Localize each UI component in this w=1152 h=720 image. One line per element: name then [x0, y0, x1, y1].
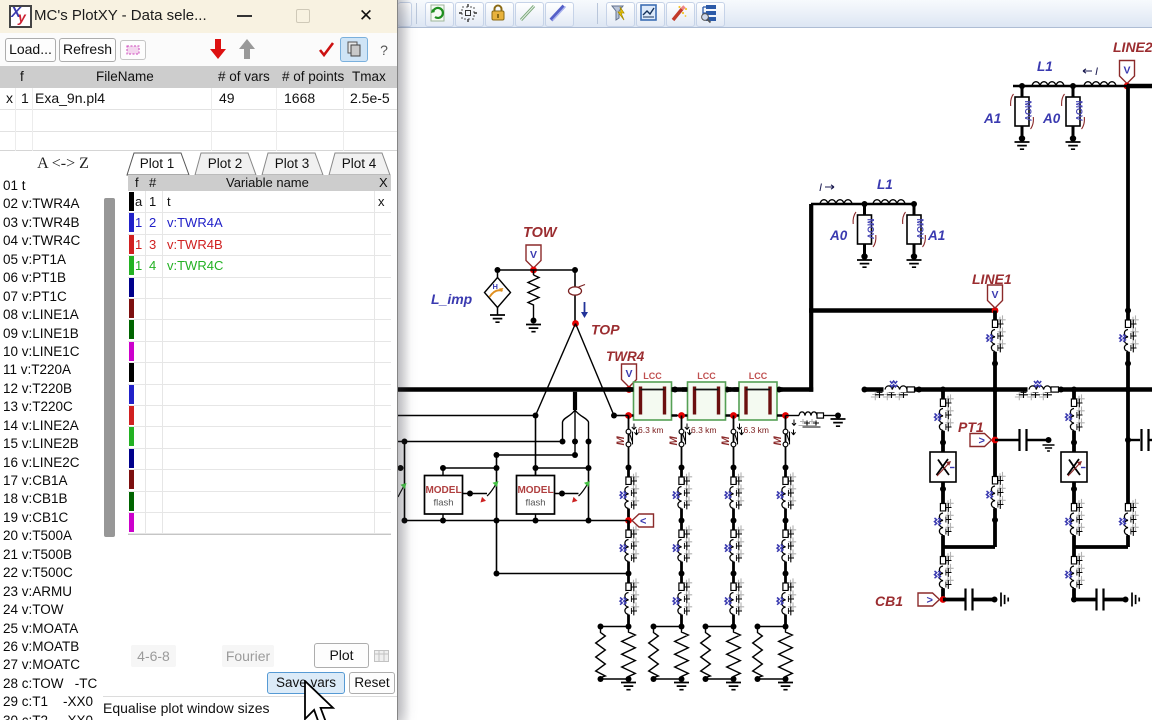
junction station bus left: [862, 387, 868, 393]
junction model1 top: [440, 465, 446, 471]
node TOP: [572, 320, 579, 327]
junction lower d: [533, 518, 539, 524]
resistor chain3 footing right: [727, 629, 741, 679]
svg-text:L_imp: L_imp: [431, 291, 473, 307]
label LCC2: [697, 371, 716, 381]
line block LCC3: [734, 382, 783, 420]
ground chain4: [778, 683, 793, 690]
icon: line blue: [551, 6, 566, 21]
capacitor coupling edge: [1142, 429, 1149, 451]
wire feeder right: [1126, 86, 1130, 547]
junction bay1 b: [940, 486, 946, 492]
junction right column: [586, 465, 592, 471]
model box flash2: [517, 476, 555, 515]
capacitor CB1: [966, 589, 973, 611]
wire line entry thick: [1127, 84, 1152, 88]
resistor tower footing: [528, 270, 539, 318]
series reactor bus left: [866, 381, 919, 400]
wire model2 bottom pin: [535, 514, 537, 521]
wire chain2 footing: [654, 627, 682, 680]
svg-text:LCC: LCC: [697, 371, 716, 381]
label A0 top: [1042, 111, 1061, 126]
wire stub left edge: [398, 467, 401, 469]
wire tower right leg to chain1: [614, 415, 629, 417]
junction lower c: [494, 518, 500, 524]
svg-text:Plot 4: Plot 4: [342, 156, 377, 171]
svg-text:A0: A0: [1042, 111, 1061, 126]
wire phase C: [497, 454, 576, 456]
junction tower right leg: [611, 413, 617, 419]
junction LINE1 lower: [992, 517, 998, 523]
label A1 top: [983, 111, 1001, 126]
svg-text:CB1: CB1: [875, 593, 903, 609]
junction LCC1-LCC2: [724, 387, 730, 393]
svg-text:Plot 1: Plot 1: [140, 156, 175, 171]
node tower4: [782, 412, 789, 419]
tower segment chain4 mid: [777, 521, 796, 574]
wire bus seg3: [725, 387, 740, 392]
label I arrow mid: [819, 182, 834, 194]
branch probe chain1: [632, 514, 654, 528]
cable segment bay1 lower: [935, 547, 954, 600]
wire link model1: [443, 467, 497, 469]
svg-text:6.3 km: 6.3 km: [744, 425, 770, 435]
ground PT1: [1043, 445, 1055, 451]
cable segment bay2 lower: [1066, 547, 1085, 600]
wire column tower left: [535, 416, 537, 476]
junction chain4 c: [783, 624, 789, 630]
switch flash2: [572, 481, 590, 503]
junction chain4 footing left: [755, 624, 761, 630]
junction fan mid: [572, 439, 578, 445]
tower segment chain3 bottom: [725, 574, 744, 627]
wire link model2: [536, 467, 589, 469]
cable segment right lower: [1120, 494, 1139, 547]
junction chain2 c: [679, 624, 685, 630]
ground resistor: [526, 325, 541, 332]
junction bus n2: [940, 387, 946, 393]
svg-text:TOP: TOP: [591, 322, 620, 338]
capacitor PT1: [1020, 429, 1027, 451]
svg-text:A1: A1: [927, 228, 945, 243]
label TOW: [523, 225, 558, 241]
junction PT1 ground: [1046, 437, 1052, 443]
tower segment chain3 mid: [725, 521, 744, 574]
node TWR4 mid (probe): [625, 517, 632, 524]
wire model1 top pin: [442, 468, 444, 476]
label CB1: [875, 593, 903, 609]
svg-text:L1: L1: [877, 177, 893, 192]
node LINE1: [992, 307, 999, 314]
wire column right: [588, 442, 590, 521]
voltage probe TOW: [526, 245, 541, 268]
label A0 mid: [829, 228, 848, 243]
junction mid column: [494, 465, 500, 471]
wire coupling edge: [1150, 439, 1152, 441]
wire tower left leg: [536, 324, 576, 416]
tower segment chain2 mid: [673, 521, 692, 574]
wire model1 output: [463, 493, 488, 495]
ground L_imp: [490, 315, 505, 322]
wire station bus: [865, 387, 1152, 391]
svg-text:LCC: LCC: [643, 371, 662, 381]
wire LCC2-LCC3 bottom: [726, 415, 740, 417]
junction phase C right: [572, 452, 578, 458]
svg-text:A1: A1: [983, 111, 1001, 126]
junction chain2 bottom right: [679, 676, 685, 682]
junction chain2 a: [679, 465, 685, 471]
resistor chain2 footing left: [649, 629, 659, 679]
label A1 mid: [927, 228, 945, 243]
wire bay2 capacitor right: [1105, 598, 1126, 602]
junction model2 output: [559, 491, 565, 497]
value label 6.3 km LCC2: [685, 424, 717, 436]
wire branch column left: [404, 442, 406, 521]
switch M chain3: [720, 428, 744, 448]
wire model1 bottom pin: [442, 514, 444, 521]
source L_imp: [485, 270, 511, 315]
icon: lock: [492, 6, 504, 21]
icon: plot: [641, 5, 656, 20]
junction chain1 bottom left: [598, 676, 604, 682]
wire chain1 footing: [601, 627, 629, 680]
junction line termination: [835, 413, 841, 419]
resistor chain4 footing right: [779, 629, 793, 679]
junction chain1 c: [626, 624, 632, 630]
voltage probe LINE2: [1120, 61, 1135, 84]
transformer X bay1: [930, 452, 956, 482]
cable segment LINE1 lower: [987, 467, 1006, 520]
junction bus n4: [1071, 387, 1077, 393]
node LINE2: [1124, 83, 1131, 90]
switch M chain1: [615, 428, 639, 448]
junction chain4 a: [783, 465, 789, 471]
junction CB1 ground: [992, 597, 998, 603]
tower segment chain1 mid: [620, 521, 639, 574]
switch M chain4: [772, 428, 796, 448]
label LCC3: [749, 371, 768, 381]
background application toolbar: [0, 0, 1152, 28]
junction chain4 bottom right: [783, 676, 789, 682]
inductor L1 top: [1032, 82, 1064, 86]
junction feeder right mid: [1125, 361, 1131, 367]
resistor chain1 footing left: [596, 629, 606, 679]
wire model2 output: [555, 493, 579, 495]
cable segment right upper: [1120, 311, 1139, 364]
wire arrester bay top: [811, 203, 914, 205]
label L1 mid: [877, 177, 893, 192]
junction feeder right top: [1125, 308, 1131, 314]
junction LCC2-LCC3: [776, 387, 782, 393]
junction branch left top: [402, 439, 408, 445]
junction bay2 breaker: [1071, 597, 1077, 603]
ground bay2: [1132, 593, 1139, 607]
line termination after tower4: [786, 412, 839, 427]
resistor chain1 footing right: [622, 629, 636, 679]
junction stub coupling: [1125, 437, 1131, 443]
ground chain1: [621, 683, 636, 690]
junction chain3 b: [731, 571, 737, 577]
switch M chain2: [668, 428, 692, 448]
wire CB1 capacitor left: [943, 598, 965, 602]
branch probe CB1: [918, 593, 940, 607]
junction A0 top: [1070, 83, 1076, 89]
junction counterpoise: [494, 571, 500, 577]
node PT1: [992, 437, 999, 444]
capacitor bay2: [1097, 589, 1104, 611]
node tower2: [678, 412, 685, 419]
junction tower left leg: [533, 413, 539, 419]
icon: reload ATP file: [431, 5, 444, 21]
junction feeder right bus: [1125, 387, 1131, 393]
shadow to the right of dialog: [398, 0, 411, 720]
junction bay2 a: [1071, 440, 1077, 446]
label I arrow top: [1083, 66, 1098, 78]
node tower1: [625, 412, 632, 419]
node TOW: [530, 267, 537, 274]
tower segment chain4 top: [777, 468, 796, 521]
junction chain1 a: [626, 465, 632, 471]
wire chain3 column: [733, 416, 735, 627]
cable segment bay2 mid: [1066, 494, 1085, 547]
value label 6.3 km LCC3: [737, 424, 769, 436]
cable segment bay1 mid: [935, 494, 954, 547]
ground chain2: [674, 683, 689, 690]
arrester A0 mid: [853, 204, 876, 267]
label L_imp: [431, 291, 473, 307]
junction fan left: [560, 439, 566, 445]
wire LINE1 feeder: [993, 311, 997, 548]
arrester A0 top: [1062, 86, 1085, 149]
label PT1: [958, 419, 984, 435]
icon: node list: [702, 5, 716, 23]
junction chain3 mid: [731, 518, 737, 524]
wire line entry: [1013, 85, 1127, 87]
label LCC1: [643, 371, 662, 381]
current probe wire: [574, 270, 576, 321]
ground line termination: [831, 419, 846, 426]
label TOP: [591, 322, 620, 338]
wire feeder bay1: [941, 390, 945, 600]
junction chain2 b: [679, 571, 685, 577]
wire bus 220 kV: [809, 308, 995, 312]
junction LINE1: [992, 361, 998, 367]
cable segment bay2 upper: [1066, 390, 1085, 443]
wire column mid: [496, 455, 498, 574]
wire bus seg2: [671, 387, 688, 392]
label LINE1: [972, 271, 1012, 287]
junction chain2 mid: [679, 518, 685, 524]
wire PT1 capacitor right: [1028, 439, 1049, 441]
wire bay2 capacitor left: [1074, 598, 1096, 602]
junction left: [495, 267, 501, 273]
junction bay1 a: [940, 440, 946, 446]
value label 6.3 km LCC1: [632, 424, 664, 436]
junction chain3 c: [731, 624, 737, 630]
junction bus n3: [1058, 387, 1064, 393]
wire LCC1-LCC2 bottom: [672, 415, 688, 417]
junction lower e: [586, 518, 592, 524]
junction chain2 footing left: [651, 624, 657, 630]
junction chain1 b: [626, 571, 632, 577]
junction right: [572, 267, 578, 273]
wire bus left: [398, 387, 634, 392]
ground CB1: [1001, 593, 1008, 607]
wire phase B left: [398, 441, 563, 443]
transformer X bay2: [1061, 452, 1087, 482]
icon: run ATP: [612, 6, 624, 20]
svg-text:6.3 km: 6.3 km: [691, 425, 717, 435]
tower segment chain1 bottom: [620, 574, 639, 627]
svg-text:LCC: LCC: [749, 371, 768, 381]
ground chain3: [726, 683, 741, 690]
icon: wand: [673, 6, 687, 20]
icon: line green: [521, 6, 534, 20]
voltage probe TWR4: [622, 364, 637, 387]
switch flash1: [481, 481, 499, 503]
resistor chain2 footing right: [675, 629, 689, 679]
tower segment chain2 bottom: [673, 574, 692, 627]
junction fan right: [586, 439, 592, 445]
wire counterpoise: [497, 573, 629, 575]
junction A1 top: [1019, 83, 1025, 89]
junction chain1 bottom right: [626, 676, 632, 682]
tower segment chain1 top: [620, 468, 639, 521]
junction LINE1 bus: [992, 387, 998, 393]
switch flash left partial: [398, 483, 407, 497]
inductor bay1: [820, 200, 852, 204]
wire tie lower left: [943, 545, 995, 549]
svg-text:Plot 3: Plot 3: [275, 156, 310, 171]
svg-text:TOW: TOW: [523, 225, 558, 241]
wire LCC3 bottom right: [777, 415, 786, 417]
svg-text:LINE2: LINE2: [1113, 39, 1152, 55]
wire chain1 column: [628, 416, 630, 627]
junction bay right: [911, 201, 917, 207]
junction model1 output: [467, 491, 473, 497]
wire chain3 footing: [706, 627, 734, 680]
junction chain3 footing left: [703, 624, 709, 630]
node below resistor: [531, 318, 537, 324]
svg-text:TWR4: TWR4: [606, 349, 645, 364]
cable segment bay1 upper: [935, 390, 954, 443]
series reactor bus mid: [1010, 381, 1063, 400]
cable segment LINE1 upper: [987, 311, 1006, 364]
svg-text:6.3 km: 6.3 km: [638, 425, 664, 435]
junction chain2 bottom left: [651, 676, 657, 682]
wire PT1 capacitor: [995, 439, 1019, 441]
svg-text:A0: A0: [829, 228, 848, 243]
junction bus-LCC1: [672, 387, 678, 393]
tower segment chain3 top: [725, 468, 744, 521]
wire phase A left: [398, 415, 536, 417]
junction chain4 mid: [783, 518, 789, 524]
branch probe PT1: [970, 434, 992, 448]
junction model2 top: [533, 465, 539, 471]
arrester A1 top: [1011, 86, 1034, 149]
svg-text:I: I: [1095, 66, 1098, 78]
wire tower right leg: [576, 324, 615, 416]
tower segment chain2 top: [673, 468, 692, 521]
node CB1: [940, 596, 947, 603]
inductor top right: [1084, 82, 1116, 86]
resistor chain3 footing left: [701, 629, 711, 679]
wire crossarm fan: [563, 410, 589, 442]
wire riser to arrester bay: [809, 204, 813, 392]
resistor chain4 footing left: [753, 629, 763, 679]
voltage probe LINE1: [988, 285, 1003, 308]
wire CB1 capacitor right: [974, 598, 995, 602]
inductor L1 mid: [873, 200, 905, 204]
wire ground bus lower: [405, 520, 629, 522]
svg-text:Plot 2: Plot 2: [208, 156, 243, 171]
tower segment chain4 bottom: [777, 574, 796, 627]
icon: select/move: [459, 4, 477, 22]
wire fan mid drop: [574, 442, 576, 456]
svg-text:H: H: [493, 282, 498, 291]
junction chain3 bottom right: [731, 676, 737, 682]
wire chain2 column: [681, 416, 683, 627]
current probe: [569, 285, 589, 319]
junction bay mid: [862, 201, 868, 207]
wire chain4 footing: [758, 627, 786, 680]
wire feeder bay2: [1072, 390, 1076, 600]
node tower3: [730, 412, 737, 419]
arrester A1 mid: [903, 204, 926, 267]
line block LCC1: [628, 382, 677, 420]
junction left edge: [398, 465, 404, 471]
junction bus n1: [916, 387, 922, 393]
label LINE2: [1113, 39, 1152, 55]
svg-text:PT1: PT1: [958, 419, 984, 435]
model box flash1: [425, 476, 463, 515]
wire chain4 column: [785, 416, 787, 627]
wire TOW top: [498, 269, 576, 271]
junction chain3 bottom left: [703, 676, 709, 682]
label L1 top: [1037, 59, 1053, 74]
mouse cursor: [299, 680, 347, 720]
wire crossarm stem: [573, 392, 577, 410]
junction bay2 b: [1071, 486, 1077, 492]
wire model2 top pin: [535, 468, 537, 476]
junction chain4 b: [783, 571, 789, 577]
svg-text:L1: L1: [1037, 59, 1053, 74]
junction chain1 footing left: [598, 624, 604, 630]
wire tie lower right: [1074, 545, 1128, 549]
svg-text:I: I: [819, 182, 822, 194]
junction chain4 bottom left: [755, 676, 761, 682]
line block LCC2: [682, 382, 731, 420]
label TWR4: [606, 349, 645, 364]
wire stub coupling: [1128, 439, 1140, 441]
junction bay2 ground: [1123, 597, 1129, 603]
wire bus seg4: [777, 387, 814, 392]
junction lower b: [440, 518, 446, 524]
node TWR4: [626, 386, 633, 393]
junction phase C left: [494, 452, 500, 458]
junction lower a: [402, 518, 408, 524]
junction chain3 a: [731, 465, 737, 471]
